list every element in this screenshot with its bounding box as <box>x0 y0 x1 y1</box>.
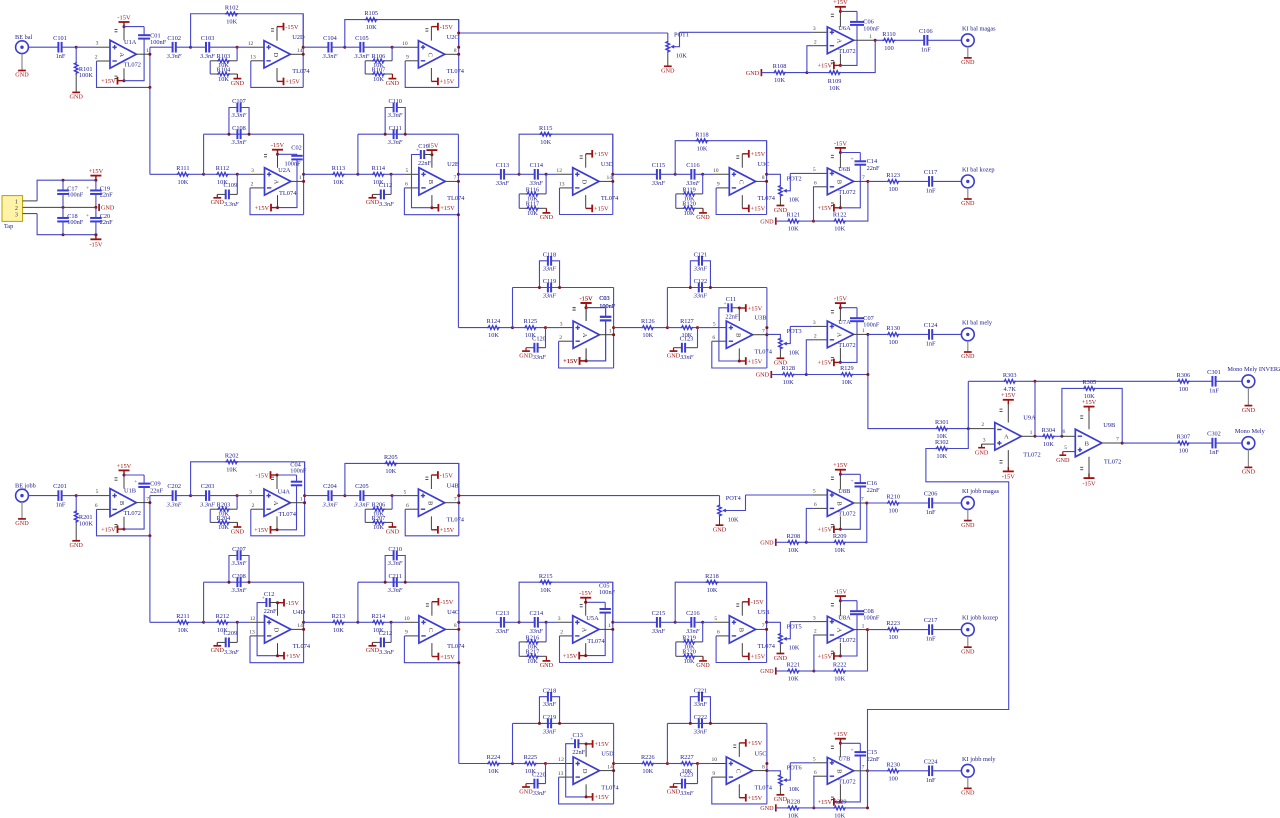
op-amp U3A pin 3 <box>559 327 574 329</box>
resistor R205 10K <box>384 462 397 466</box>
wire cap-pair rail <box>357 581 359 583</box>
power +15V to U8A <box>839 643 841 656</box>
wire feedback to output <box>846 771 867 808</box>
node input U1B <box>75 494 78 497</box>
power +15V to U5A <box>585 643 587 656</box>
svg-text:6: 6 <box>95 503 98 509</box>
wire <box>504 621 519 623</box>
svg-text:C214: C214 <box>529 610 543 617</box>
wire cap-pair left leg <box>203 582 205 622</box>
svg-text:C121: C121 <box>694 251 708 258</box>
ground <box>75 540 77 542</box>
op-amp U7A output pin 1 <box>854 333 868 335</box>
ground <box>775 804 777 811</box>
node after C213 <box>518 621 521 624</box>
op-amp U6A pin 3 <box>680 31 813 33</box>
svg-text:6: 6 <box>814 181 817 187</box>
svg-text:13: 13 <box>559 182 565 188</box>
svg-text:13: 13 <box>250 55 256 61</box>
svg-text:+15V: +15V <box>817 799 832 806</box>
op-amp U3D output pin 14 <box>599 180 613 182</box>
svg-text:GND: GND <box>15 72 29 79</box>
wire wiper <box>789 326 791 343</box>
svg-text:U3B: U3B <box>755 314 767 321</box>
capacitor C10 <box>420 150 422 159</box>
svg-text:R302: R302 <box>935 439 949 446</box>
svg-text:-15V: -15V <box>271 142 285 149</box>
wire <box>814 807 833 809</box>
svg-text:10: 10 <box>713 168 719 174</box>
svg-text:+15V: +15V <box>1001 392 1016 399</box>
wire <box>538 173 546 175</box>
wire output leg <box>458 582 460 663</box>
svg-text:C11: C11 <box>726 296 736 303</box>
svg-text:C114: C114 <box>530 162 544 169</box>
svg-text:TL072: TL072 <box>838 48 855 55</box>
wire <box>345 173 358 175</box>
wire feedback to inverting input <box>405 509 459 536</box>
wire <box>932 502 961 504</box>
svg-text:33nF: 33nF <box>542 728 556 735</box>
wire <box>614 763 642 765</box>
power +15V to U9B <box>1088 411 1090 429</box>
svg-text:3.3nF: 3.3nF <box>387 560 403 567</box>
svg-text:6: 6 <box>717 630 720 636</box>
svg-text:GND: GND <box>661 68 675 75</box>
node after C202 <box>189 494 192 497</box>
node U8B feedback <box>805 541 808 544</box>
svg-text:-15V: -15V <box>256 472 270 479</box>
svg-text:A: A <box>1004 434 1009 441</box>
svg-text:GND: GND <box>696 662 710 669</box>
wire <box>868 770 887 772</box>
power -15V to U5B <box>741 602 743 616</box>
svg-text:C301: C301 <box>1207 369 1221 376</box>
resistor R130 100 <box>887 333 900 337</box>
svg-text:100nF: 100nF <box>150 39 167 46</box>
op-amp U5A pin 2 <box>560 635 573 637</box>
ground <box>779 197 781 206</box>
svg-text:R115: R115 <box>539 125 552 132</box>
resistor R222 10K <box>833 669 846 673</box>
capacitor C104 <box>327 42 329 53</box>
wire feedback leg <box>519 134 613 174</box>
svg-text:3.3nF: 3.3nF <box>199 501 215 508</box>
svg-text:10K: 10K <box>697 145 708 152</box>
wire U4C leg to mely row <box>458 663 460 764</box>
svg-text:GND: GND <box>101 205 115 212</box>
svg-text:+15V: +15V <box>751 151 766 158</box>
wire feedback to inverting input <box>712 341 767 368</box>
op-amp U6A pin 2 <box>813 45 827 47</box>
svg-text:U9B: U9B <box>1103 422 1115 429</box>
svg-text:3: 3 <box>96 41 99 47</box>
svg-text:10: 10 <box>712 757 718 763</box>
capacitor C03 <box>586 307 606 309</box>
wire <box>776 541 787 543</box>
resistor R106 10K <box>391 47 393 61</box>
wire output leg <box>458 20 460 88</box>
wire <box>209 61 211 74</box>
resistor R305 10K feedback <box>1062 388 1083 436</box>
ground <box>775 218 777 225</box>
svg-text:10K: 10K <box>373 524 384 531</box>
op-amp U5C pin 9 <box>712 776 727 778</box>
wire feedback to inverting input <box>404 636 458 663</box>
svg-text:12: 12 <box>248 41 254 47</box>
svg-text:C111: C111 <box>389 125 402 132</box>
wire <box>814 670 833 672</box>
wire feedback to inverting input <box>560 636 613 663</box>
resistor R203 10K <box>236 496 238 510</box>
wire feedback to inverting input <box>404 188 458 215</box>
svg-text:C101: C101 <box>53 35 67 42</box>
svg-text:GND: GND <box>975 449 989 456</box>
ground <box>75 91 77 93</box>
wire <box>500 327 513 329</box>
wire <box>332 495 345 497</box>
wire <box>613 621 657 623</box>
wire output leg <box>766 288 768 369</box>
svg-text:U3C: U3C <box>758 161 770 168</box>
svg-text:5: 5 <box>404 489 407 495</box>
power +15V to U1B <box>123 517 125 530</box>
svg-text:+15V: +15V <box>817 205 832 212</box>
svg-text:KI bal mely: KI bal mely <box>962 319 993 326</box>
resistor R227 10K <box>680 762 693 766</box>
svg-text:+15V: +15V <box>440 527 455 534</box>
svg-text:7: 7 <box>762 328 765 334</box>
wire <box>667 327 680 329</box>
power +15V flag <box>94 179 97 182</box>
svg-text:GND: GND <box>211 199 225 206</box>
wire cap-pair left leg <box>357 134 359 174</box>
wire <box>385 621 391 623</box>
power -15V to U7A <box>839 308 841 321</box>
wire <box>660 173 675 175</box>
svg-text:33nF: 33nF <box>651 628 665 635</box>
wire <box>237 46 248 48</box>
capacitor C121 <box>690 261 698 288</box>
svg-text:D: D <box>273 628 280 633</box>
capacitor C101 1nF <box>57 42 59 53</box>
resistor R211 10K <box>176 621 189 625</box>
potentiometer POT5 10K <box>779 633 783 645</box>
svg-text:3.3nF: 3.3nF <box>387 139 403 146</box>
svg-text:GND: GND <box>519 788 533 795</box>
capacitor C109 <box>236 174 238 194</box>
svg-text:22nF: 22nF <box>867 756 880 763</box>
svg-text:GND: GND <box>519 352 533 359</box>
svg-text:KI bal magas: KI bal magas <box>962 25 996 32</box>
power -15V to U2C <box>430 27 432 41</box>
svg-text:+: + <box>134 479 137 485</box>
svg-text:-15V: -15V <box>1082 480 1096 487</box>
wire output leg <box>303 134 305 215</box>
svg-text:R120: R120 <box>682 201 696 208</box>
svg-text:10K: 10K <box>684 658 695 665</box>
capacitor C18 100nF <box>62 233 65 236</box>
svg-text:+15V: +15V <box>748 358 763 365</box>
svg-text:6: 6 <box>406 503 409 509</box>
connector KI bal magas <box>961 34 974 47</box>
power +15V to U8B <box>839 516 841 529</box>
node after C103 <box>236 46 239 49</box>
svg-text:GND: GND <box>1056 457 1070 464</box>
svg-text:10K: 10K <box>788 813 799 818</box>
wire <box>932 180 961 182</box>
svg-text:+: + <box>86 186 89 192</box>
wire <box>667 763 680 765</box>
op-amp U5D output pin 14 <box>599 770 613 772</box>
svg-text:10K: 10K <box>527 210 538 217</box>
svg-text:C108: C108 <box>232 125 246 132</box>
power -15V to U4D <box>277 603 279 616</box>
svg-text:6: 6 <box>814 502 817 508</box>
wire <box>786 72 807 74</box>
wire <box>76 495 94 497</box>
svg-text:100nF: 100nF <box>67 219 84 226</box>
capacitor C302 1nF <box>1211 438 1213 449</box>
svg-text:BE jobb: BE jobb <box>15 482 36 489</box>
wire U2B leg to mely row <box>457 215 459 328</box>
op-amp U8A output pin 1 <box>854 629 868 631</box>
op-amp U2B TL074 <box>419 168 445 195</box>
svg-text:R113: R113 <box>332 165 345 172</box>
potentiometer POT4 10K <box>718 505 722 517</box>
capacitor C217 1nF <box>928 624 930 635</box>
op-amp U7B TL072 <box>827 757 853 784</box>
ground <box>673 348 675 351</box>
node U8A feedback <box>812 670 815 673</box>
svg-text:22nF: 22nF <box>572 749 585 756</box>
ground <box>545 208 547 213</box>
node u4db <box>236 621 239 624</box>
wire <box>795 374 807 376</box>
svg-text:C204: C204 <box>323 483 337 490</box>
svg-text:1nF: 1nF <box>56 502 66 509</box>
op-amp U3B output pin 7 <box>753 334 767 336</box>
wire <box>303 46 328 48</box>
svg-text:3.3nF: 3.3nF <box>231 139 247 146</box>
op-amp U2B pin 5 <box>404 173 419 175</box>
svg-text:33nF: 33nF <box>542 701 556 708</box>
svg-text:33nF: 33nF <box>532 354 546 361</box>
svg-text:5: 5 <box>813 167 816 173</box>
svg-text:+15V: +15V <box>286 653 301 660</box>
svg-text:1: 1 <box>609 328 612 334</box>
svg-text:R126: R126 <box>641 318 655 325</box>
svg-text:R222: R222 <box>833 662 847 669</box>
wire feedback to inverting input <box>251 61 303 88</box>
wire <box>900 180 929 182</box>
resistor R103 10K <box>236 47 238 61</box>
op-amp U4B pin 6 <box>405 508 418 510</box>
svg-text:R107: R107 <box>372 66 386 73</box>
svg-text:TL072: TL072 <box>838 342 855 349</box>
op-amp U7B pin 6 <box>813 775 827 777</box>
op-amp U1A TL072 <box>110 40 136 68</box>
svg-text:2: 2 <box>559 335 562 341</box>
svg-text:GND: GND <box>667 788 681 795</box>
svg-text:100: 100 <box>884 45 893 52</box>
svg-text:10K: 10K <box>834 813 845 818</box>
potentiometer POT6 10K <box>767 771 781 774</box>
wire <box>660 621 675 623</box>
power +15V to U3A <box>585 348 587 361</box>
svg-text:+15V: +15V <box>101 526 116 533</box>
node after C203 <box>236 494 239 497</box>
svg-text:C218: C218 <box>543 687 557 694</box>
op-amp U8B pin 5 <box>746 494 813 496</box>
svg-text:U2C: U2C <box>447 34 459 41</box>
op-amp U1A pin 2 <box>97 60 111 62</box>
connector BE jobb <box>16 489 29 502</box>
power +15V to U5D <box>585 784 587 797</box>
op-amp U2D pin 12 <box>248 46 264 48</box>
svg-text:R212: R212 <box>216 613 230 620</box>
op-amp U3D pin 13 <box>560 187 573 189</box>
wire feedback to output <box>846 503 867 542</box>
svg-text:7: 7 <box>146 496 149 502</box>
node mono input <box>967 427 970 430</box>
ground <box>719 517 721 526</box>
svg-text:12: 12 <box>558 757 564 763</box>
wire cap-pair left leg <box>203 134 205 174</box>
svg-text:7: 7 <box>762 623 765 629</box>
op-amp U9A pin 3 <box>982 443 995 445</box>
power -15V to U9B <box>1088 457 1090 474</box>
wire <box>932 770 961 772</box>
ground <box>1247 450 1249 468</box>
power -15V to U3A <box>585 308 587 321</box>
potentiometer POT1 10K <box>667 33 669 41</box>
power -15V to U1A <box>123 27 125 41</box>
potentiometer POT5 10K <box>767 622 781 633</box>
capacitor C124 1nF <box>928 329 930 340</box>
resistor R104 10K <box>210 73 217 75</box>
svg-text:R211: R211 <box>176 613 189 620</box>
svg-text:100: 100 <box>1179 448 1188 455</box>
svg-text:A: A <box>835 333 842 338</box>
svg-text:+15V: +15V <box>594 206 609 213</box>
op-amp U5A TL074 <box>573 616 599 643</box>
ground <box>702 656 704 661</box>
svg-text:GND: GND <box>746 70 760 77</box>
resistor R223 100 <box>887 628 900 632</box>
power +15V to U3A <box>585 348 587 361</box>
node u2ba <box>356 173 359 176</box>
resistor R127 10K <box>680 326 693 330</box>
svg-text:13: 13 <box>558 771 564 777</box>
svg-text:1: 1 <box>608 623 611 629</box>
wire feedback to inverting input <box>250 636 304 663</box>
svg-text:9: 9 <box>717 182 720 188</box>
op-amp U4B TL074 <box>418 489 444 516</box>
power GND flag <box>98 204 100 211</box>
resistor R201 100K <box>75 496 77 510</box>
op-amp U1B TL072 <box>110 489 136 517</box>
svg-text:B: B <box>835 180 842 185</box>
wire to inverting input <box>806 508 813 542</box>
svg-text:R307: R307 <box>1177 434 1191 441</box>
capacitor C213 <box>500 617 502 628</box>
op-amp U4A pin 3 <box>248 495 264 497</box>
wire <box>385 173 391 175</box>
svg-text:C124: C124 <box>924 322 938 329</box>
svg-text:R105: R105 <box>364 10 378 17</box>
wire cap-pair left leg <box>357 582 359 622</box>
svg-text:C122: C122 <box>694 278 708 285</box>
svg-text:10K: 10K <box>527 658 538 665</box>
svg-text:C102: C102 <box>167 35 181 42</box>
node after C204 <box>343 494 346 497</box>
svg-text:GND: GND <box>1242 407 1256 414</box>
op-amp U8B TL072 <box>827 490 853 517</box>
op-amp U2A output pin 1 <box>291 180 304 182</box>
capacitor C02 <box>278 153 298 155</box>
power -15V to U2D <box>276 27 278 41</box>
svg-text:10K: 10K <box>676 53 687 60</box>
wire <box>693 763 697 765</box>
wire <box>875 39 882 41</box>
wire U1B output to highpass chain <box>150 495 173 497</box>
svg-text:C02: C02 <box>291 145 302 152</box>
svg-text:GND: GND <box>961 353 975 360</box>
svg-text:R206: R206 <box>372 502 386 509</box>
svg-text:10K: 10K <box>488 332 499 339</box>
svg-text:POT3: POT3 <box>787 328 802 335</box>
svg-text:TL074: TL074 <box>447 68 465 75</box>
resistor R218 10K <box>706 580 719 584</box>
svg-text:10K: 10K <box>834 547 845 554</box>
op-amp U2D output pin 14 <box>290 53 303 55</box>
svg-text:R111: R111 <box>176 165 189 172</box>
wire feedback to inverting input <box>97 61 150 87</box>
svg-text:U4C: U4C <box>447 609 459 616</box>
power +15V to U5C <box>738 743 740 757</box>
wire output leg <box>613 723 615 804</box>
op-amp U4A pin 2 <box>251 508 264 510</box>
svg-text:C117: C117 <box>924 169 937 176</box>
wire <box>537 763 546 765</box>
svg-text:R123: R123 <box>886 172 900 179</box>
op-amp U4D pin 12 <box>250 621 265 623</box>
svg-text:+15V: +15V <box>594 151 609 158</box>
svg-text:3: 3 <box>558 616 561 622</box>
ground <box>779 786 781 795</box>
svg-text:D: D <box>581 180 588 185</box>
svg-text:C: C <box>737 180 744 184</box>
resistor R206 10K <box>391 496 393 510</box>
connector Mono Mely INVERZ <box>1242 375 1255 388</box>
wire <box>204 621 216 623</box>
resistor R216 10K <box>545 622 547 642</box>
capacitor C204 <box>327 490 329 501</box>
svg-text:GND: GND <box>760 668 774 675</box>
svg-text:GND: GND <box>961 648 975 655</box>
capacitor C210 <box>385 556 393 583</box>
potentiometer POT6 10K <box>779 774 783 786</box>
wire <box>900 629 929 631</box>
capacitor C215 <box>656 617 658 628</box>
wire <box>693 327 697 329</box>
svg-text:2: 2 <box>981 422 984 428</box>
op-amp U1B pin 5 <box>94 495 110 497</box>
svg-text:GND: GND <box>961 200 975 207</box>
svg-text:U9A: U9A <box>1023 415 1036 422</box>
op-amp U3B pin 6 <box>712 340 727 342</box>
